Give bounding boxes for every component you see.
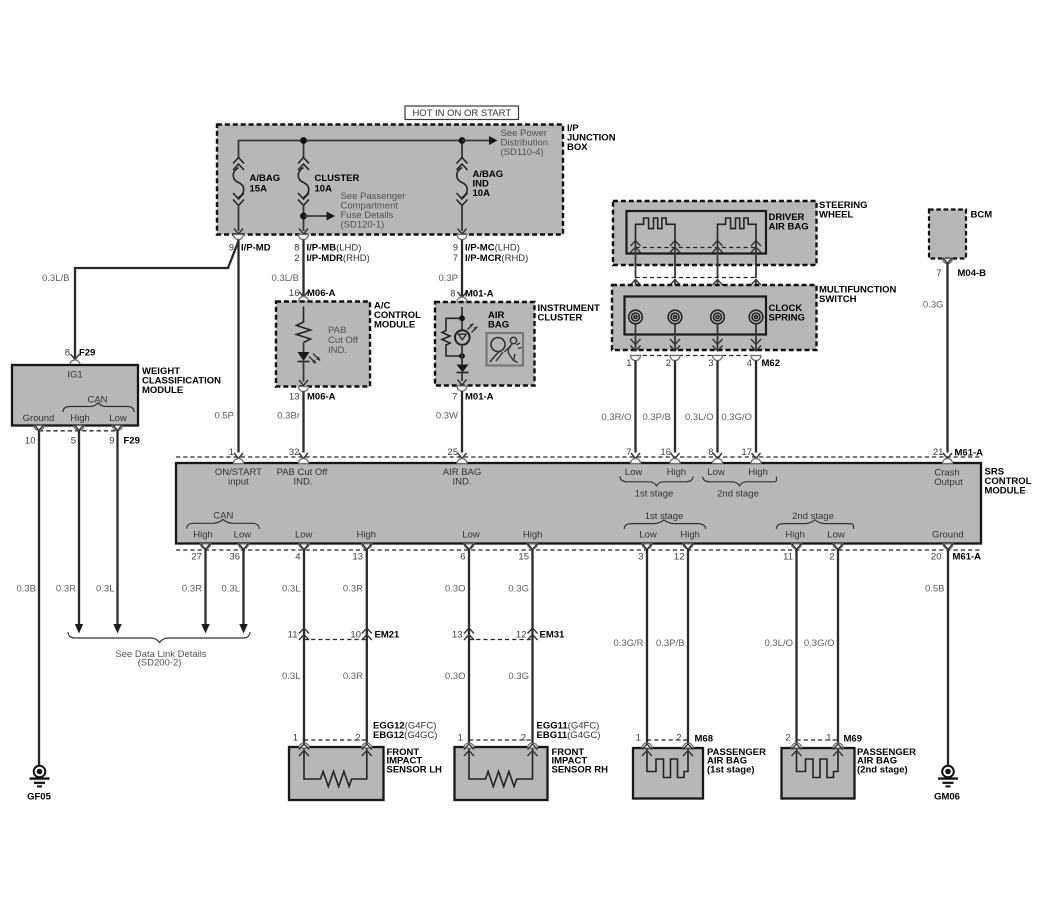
wire WCM ground to GF05 [38,431,40,765]
hot in on or start label box [405,106,519,120]
svg-text:M61-A: M61-A [955,448,984,459]
steering wheel label [819,200,868,221]
svg-text:High: High [748,467,768,478]
SRS bottom connector dashed line [176,549,981,551]
svg-text:Output: Output [934,477,963,488]
svg-text:5: 5 [71,436,76,447]
connector I/P-MC pin 9 / I/P-MCR pin 7 [453,229,529,265]
wire I/P-MB to A/C module [302,240,304,297]
passenger air bag 1st stage label [707,747,766,775]
wire SRS pin 11 down [795,549,797,744]
svg-text:12: 12 [674,552,685,563]
svg-text:SENSOR LH: SENSOR LH [387,764,443,775]
data link arrow 2 [113,624,121,634]
junction node (cluster fuse) [300,137,307,144]
connector M62 pin 4 [747,356,761,370]
svg-text:0.3P/B: 0.3P/B [642,412,671,423]
connector M06-A pin 13 [289,380,336,403]
connector M01-A pin 8 [450,289,493,303]
clock spring coil 1 [629,310,643,324]
SRS bottom pin 6 [460,544,474,563]
svg-text:16: 16 [289,288,300,299]
svg-text:BOX: BOX [567,142,588,153]
data link arrow 4 [239,624,247,634]
svg-text:10: 10 [350,630,361,641]
svg-text:0.3R: 0.3R [56,584,76,595]
svg-text:MODULE: MODULE [142,385,183,396]
I/P junction box label [567,123,616,153]
svg-text:13: 13 [352,552,363,563]
wire fuse A/BAG IND to I/P-MC [461,206,463,232]
svg-text:0.3O: 0.3O [445,584,466,595]
svg-text:15A: 15A [250,184,268,195]
connector M06-A pin 16 [289,288,336,302]
connector M68 pins 1,2 [636,733,713,757]
svg-text:2nd stage: 2nd stage [717,489,759,500]
SRS bottom pin 15 [518,544,537,563]
svg-text:CLUSTER: CLUSTER [315,173,360,184]
SRS bottom pin 27 [191,544,210,563]
squib (passenger 2nd stage) [797,748,839,778]
ground GM06 [934,766,960,803]
multifunction switch label [819,285,897,306]
SRS label ON/START input [215,467,262,488]
svg-text:Ground: Ground [23,413,55,424]
see power distribution arrow [462,136,498,145]
parallel resistor branch [442,318,462,356]
svg-text:4: 4 [295,552,300,563]
svg-text:0.3R: 0.3R [182,584,202,595]
svg-text:16: 16 [660,447,671,458]
svg-text:Low: Low [295,530,313,541]
SRS control module box [176,463,981,544]
svg-text:36: 36 [229,552,240,563]
fuse A/BAG IND 10A [457,158,468,206]
svg-text:0.3G/R: 0.3G/R [613,638,643,649]
instrument cluster label [538,303,600,324]
svg-text:2: 2 [829,552,834,563]
SRS bottom pin 12 [674,544,693,563]
squib (passenger 1st stage) [647,748,688,778]
wire M62-4 to SRS pin 17 [755,361,757,453]
node (lamp top) [459,315,465,321]
svg-text:7: 7 [626,447,631,458]
connector F29 pin 8 (WCM top) [65,348,96,366]
connector pin 9 F29 (CAN low) [109,425,140,447]
svg-text:Low: Low [639,530,657,541]
svg-text:Low: Low [625,467,643,478]
svg-text:BCM: BCM [971,210,993,221]
wire SRS pin 13 down [366,549,368,744]
svg-text:8: 8 [450,289,455,300]
connector M62 pin 2 [666,356,680,370]
svg-text:High: High [680,530,700,541]
svg-text:0.3L/O: 0.3L/O [685,412,714,423]
SRS top pin 16 [660,447,680,464]
svg-text:Low: Low [707,467,725,478]
I/P junction box [217,125,563,235]
svg-text:(SD110-4): (SD110-4) [501,147,544,158]
svg-text:SWITCH: SWITCH [819,294,857,305]
svg-text:input: input [228,477,249,488]
svg-text:EM31: EM31 [540,630,566,641]
SRS label AIR BAG IND. [443,467,482,488]
wire cluster to SRS pin 25 [461,391,463,453]
svg-text:High: High [193,530,213,541]
svg-text:0.5B: 0.5B [925,584,945,595]
svg-text:2: 2 [785,733,790,744]
clock spring coil 2 [668,310,682,324]
svg-text:HOT IN ON OR START: HOT IN ON OR START [412,108,511,119]
svg-text:M61-A: M61-A [953,552,982,563]
wire M62-3 to SRS pin 8 [716,361,718,453]
svg-text:I/P-MCR(RHD): I/P-MCR(RHD) [465,253,528,264]
svg-text:0.3R/O: 0.3R/O [601,412,631,423]
svg-text:7: 7 [936,268,941,279]
squib 1 pin chevrons [631,241,681,253]
svg-text:10: 10 [25,436,36,447]
svg-text:8: 8 [65,348,70,359]
svg-text:F29: F29 [124,436,140,447]
svg-text:2: 2 [676,733,681,744]
svg-text:GF05: GF05 [27,792,51,803]
fuse A/BAG 15A [233,158,244,206]
svg-text:1: 1 [293,733,298,744]
svg-text:(SD120-1): (SD120-1) [341,220,385,231]
svg-text:High: High [785,530,805,541]
svg-text:7: 7 [453,253,458,264]
connector M01-A pin 7 [452,380,493,403]
connector I/P-MB pin 8 / I/P-MDR pin 2 [294,229,370,265]
wire fuse CLUSTER to I/P-MB [303,206,305,232]
junction node (a/bag ind fuse) [459,137,466,144]
wire I/P-MD to WCM pin 8 [75,241,239,358]
svg-text:7: 7 [452,392,457,403]
svg-text:M62: M62 [762,358,780,369]
SRS label 2nd stage (passenger) [776,511,853,541]
svg-text:1: 1 [458,733,463,744]
svg-text:Ground: Ground [932,530,964,541]
svg-text:IND.: IND. [453,477,472,488]
SRS control module label [985,467,1032,497]
SRS label Low/High driver 1st stage [620,467,693,500]
M62 exit chevrons [631,339,762,351]
SRS label PAB Cut Off IND. [277,467,328,488]
connector pin 10 (WCM ground) [25,425,44,447]
SRS top pin 1 [229,447,244,464]
see power distribution text [501,128,549,158]
A/C control module box [276,302,370,387]
PAB Cut Off IND text [328,325,358,356]
passenger air bag 2nd stage box [782,748,855,799]
svg-text:EM21: EM21 [375,630,401,641]
ground GF05 [27,766,51,803]
AIR BAG text [488,310,509,331]
svg-text:EBG11(G4GC): EBG11(G4GC) [537,730,601,741]
sensor LH internal resistor [304,747,367,787]
svg-text:0.3B: 0.3B [16,584,36,595]
wire CAN high to data link [78,431,80,624]
svg-text:SPRING: SPRING [769,313,805,324]
junction node (fuse details tap) [300,213,307,220]
svg-text:2: 2 [294,253,299,264]
svg-text:0.3Br: 0.3Br [277,411,300,422]
front impact sensor LH label [387,747,443,775]
svg-text:25: 25 [447,447,458,458]
wire SRS pin 36 to data link [242,549,244,624]
air bag lamp [455,324,478,345]
svg-text:I/P-MB(LHD): I/P-MB(LHD) [307,243,362,254]
A/C control module label [374,301,421,331]
wire M62-2 to SRS pin 16 [674,361,676,453]
wire A/C to SRS pin 32 [302,392,304,453]
SRS top pin 8 [708,447,722,464]
svg-text:High: High [523,530,543,541]
svg-text:MODULE: MODULE [374,320,415,331]
SRS top pin 21 M61-A [933,447,983,464]
wire SRS pin 6 down [468,549,470,744]
data link arrow 1 [75,624,83,634]
svg-text:1: 1 [229,447,234,458]
SRS bottom pin 20 M61-A [931,544,981,563]
WCM bottom connector dashed line [39,430,118,432]
svg-text:M06-A: M06-A [307,392,336,403]
connector EM21 [288,628,400,641]
weight classification module box [12,365,138,426]
svg-text:0.3W: 0.3W [436,411,458,422]
BCM box [929,210,966,259]
svg-text:SENSOR RH: SENSOR RH [552,764,609,775]
clock spring coil 4 [749,310,763,324]
svg-text:I/P-MD: I/P-MD [241,243,271,254]
wire SRS pin 15 down [531,549,533,744]
SRS label Low/High driver 2nd stage [703,467,777,500]
svg-text:0.5P: 0.5P [214,411,234,422]
fuse CLUSTER 10A [298,158,309,206]
svg-text:High: High [70,413,90,424]
WCM CAN brace [63,403,134,412]
svg-text:IND.: IND. [294,477,313,488]
svg-text:CLUSTER: CLUSTER [538,313,583,324]
driver air bag box [627,211,767,254]
svg-text:1st stage: 1st stage [635,489,674,500]
svg-text:(SD200-2): (SD200-2) [138,658,182,669]
connector M62 pin 1 [626,356,640,370]
svg-text:High: High [667,467,687,478]
clock spring coil 3 [711,310,725,324]
connector I/P-MD pin 9 [229,229,271,254]
svg-text:20: 20 [931,552,942,563]
SRS top pin 17 [741,447,761,464]
svg-text:1: 1 [626,358,631,369]
wire SRS pin 27 to data link [204,549,206,624]
svg-text:M06-A: M06-A [307,288,336,299]
svg-text:0.3G: 0.3G [508,671,529,682]
sensor RH internal resistor [469,747,533,787]
SRS top connector dashed line [176,456,981,458]
data link brace [68,632,250,643]
sensor RH connector pins 1,2 [458,733,538,757]
see passenger fuse details arrow [304,212,336,221]
svg-text:MODULE: MODULE [985,486,1026,497]
svg-text:8: 8 [294,243,299,254]
svg-text:IG1: IG1 [67,370,82,381]
svg-text:M68: M68 [695,734,713,745]
svg-text:1: 1 [826,733,831,744]
SRS top pin 32 [289,447,309,464]
node (lamp bottom) [459,353,465,359]
wire SRS pin 2 down [837,549,839,744]
wires into clock spring [636,279,757,310]
front impact sensor RH box [455,747,548,800]
svg-text:GM06: GM06 [934,792,960,803]
svg-text:0.3O: 0.3O [445,671,466,682]
svg-text:A/BAG: A/BAG [250,173,281,184]
connector pin 5 (CAN high) [71,425,84,447]
svg-text:11: 11 [288,630,298,641]
svg-text:WHEEL: WHEEL [819,210,854,221]
svg-text:0.3L: 0.3L [282,671,301,682]
SRS top pin 25 [447,447,467,464]
svg-text:AIR BAG: AIR BAG [769,222,809,233]
clock spring label [769,303,805,324]
svg-text:F29: F29 [79,348,95,359]
svg-text:EBG12(G4GC): EBG12(G4GC) [373,730,437,741]
WCM label [142,366,221,396]
squib 2 (driver air bag 2nd stage) [718,218,757,246]
connector M69 pins 2,1 [785,733,862,757]
svg-text:32: 32 [289,447,300,458]
svg-text:2nd stage: 2nd stage [792,511,834,522]
M62 connector dashed line [636,355,757,357]
airbag pictogram [487,333,524,366]
connector EGG11/EBG11 labels [537,721,601,742]
svg-text:0.3L/O: 0.3L/O [764,638,793,649]
wire SRS pin 12 down [687,549,689,744]
svg-text:Low: Low [109,413,127,424]
svg-text:Low: Low [827,530,845,541]
svg-text:M69: M69 [844,734,862,745]
svg-text:2: 2 [355,733,360,744]
svg-text:13: 13 [452,630,463,641]
svg-text:(2nd stage): (2nd stage) [857,764,908,775]
svg-text:1: 1 [636,733,641,744]
data link arrow 3 [201,624,209,634]
SRS label CAN High/Low [187,511,260,541]
svg-text:17: 17 [741,447,752,458]
svg-text:0.3G: 0.3G [508,584,529,595]
svg-text:2: 2 [666,358,671,369]
svg-text:M01-A: M01-A [465,289,494,300]
SRS bottom pin 36 [229,544,248,563]
svg-text:10A: 10A [315,184,333,195]
connector M62 pin 3 [708,356,722,370]
squib 1 (driver air bag 1st stage) [636,218,676,246]
svg-text:High: High [357,530,377,541]
SRS bottom pin 2 [829,544,843,563]
wire BCM to SRS pin 21 [946,264,948,453]
multifunction switch box [612,285,817,350]
svg-text:21: 21 [933,447,944,458]
svg-text:11: 11 [783,552,793,563]
interface chevrons [631,280,762,292]
see passenger fuse details text [341,191,406,231]
svg-text:0.3L/B: 0.3L/B [42,273,69,284]
svg-text:10A: 10A [473,188,491,199]
svg-text:Low: Low [234,530,252,541]
passenger air bag 1st stage box [633,748,703,799]
svg-text:0.3L/B: 0.3L/B [272,273,299,284]
SRS bottom pin 4 [295,544,309,563]
svg-text:0.3G: 0.3G [923,300,944,311]
svg-text:3: 3 [638,552,643,563]
connector EM31 [452,628,565,641]
wire I/P-MC to instrument cluster [461,240,463,297]
wire I/P-MD to SRS pin 1 (ON/START) [237,240,239,453]
svg-text:I/P-MDR(RHD): I/P-MDR(RHD) [307,253,370,264]
wire M62-1 to SRS pin 7 [634,361,636,453]
svg-text:M01-A: M01-A [465,392,494,403]
svg-text:12: 12 [516,630,527,641]
svg-text:9: 9 [109,436,114,447]
svg-text:6: 6 [460,552,465,563]
svg-text:I/P-MC(LHD): I/P-MC(LHD) [465,243,520,254]
wire SRS pin 3 down [646,549,648,744]
wires coils to M62 [636,324,757,351]
svg-text:9: 9 [453,243,458,254]
steering wheel box [613,201,817,265]
svg-text:8: 8 [708,447,713,458]
svg-text:(1st stage): (1st stage) [707,764,755,775]
wire SRS pin 20 to GM06 [947,549,949,765]
squib 2 pin chevrons [713,241,762,253]
svg-text:3: 3 [708,358,713,369]
svg-text:2: 2 [521,733,526,744]
connector M04-B pin 7 [936,258,986,279]
see data link details text [115,649,207,669]
svg-text:27: 27 [191,552,202,563]
svg-text:BAG: BAG [488,320,509,331]
wire CAN low to data link [116,431,118,624]
LED diode [457,365,469,382]
SRS label Crash Output [934,468,963,489]
svg-text:0.3L: 0.3L [282,584,301,595]
svg-text:0.3G/O: 0.3G/O [804,638,835,649]
SRS bottom pin 13 [352,544,371,563]
SRS bottom pin 11 [783,544,801,563]
svg-text:0.3R: 0.3R [343,671,363,682]
wire SRS pin 4 down [303,549,305,744]
svg-text:0.3L: 0.3L [96,584,115,595]
sensor LH connector pins 1,2 [293,733,372,757]
SRS bottom pin 3 [638,544,652,563]
svg-text:0.3R: 0.3R [343,584,363,595]
svg-text:IND.: IND. [328,345,347,356]
connector EGG12/EBG12 labels [373,721,437,742]
wire fuse A/BAG to I/P-MD [238,206,240,232]
cluster wire top [461,307,463,331]
clock spring box [625,297,767,335]
svg-text:Low: Low [462,530,480,541]
interface dashed line steering/clockspring [636,277,757,279]
svg-text:0.3P: 0.3P [438,273,458,284]
squib legs down through steering box [636,246,757,278]
svg-text:4: 4 [747,358,752,369]
passenger air bag 2nd stage label [857,747,916,775]
SRS label 1st stage (passenger) [624,511,705,541]
svg-text:0.3G/O: 0.3G/O [721,412,752,423]
LED (PAB cut off ind) [298,343,321,382]
